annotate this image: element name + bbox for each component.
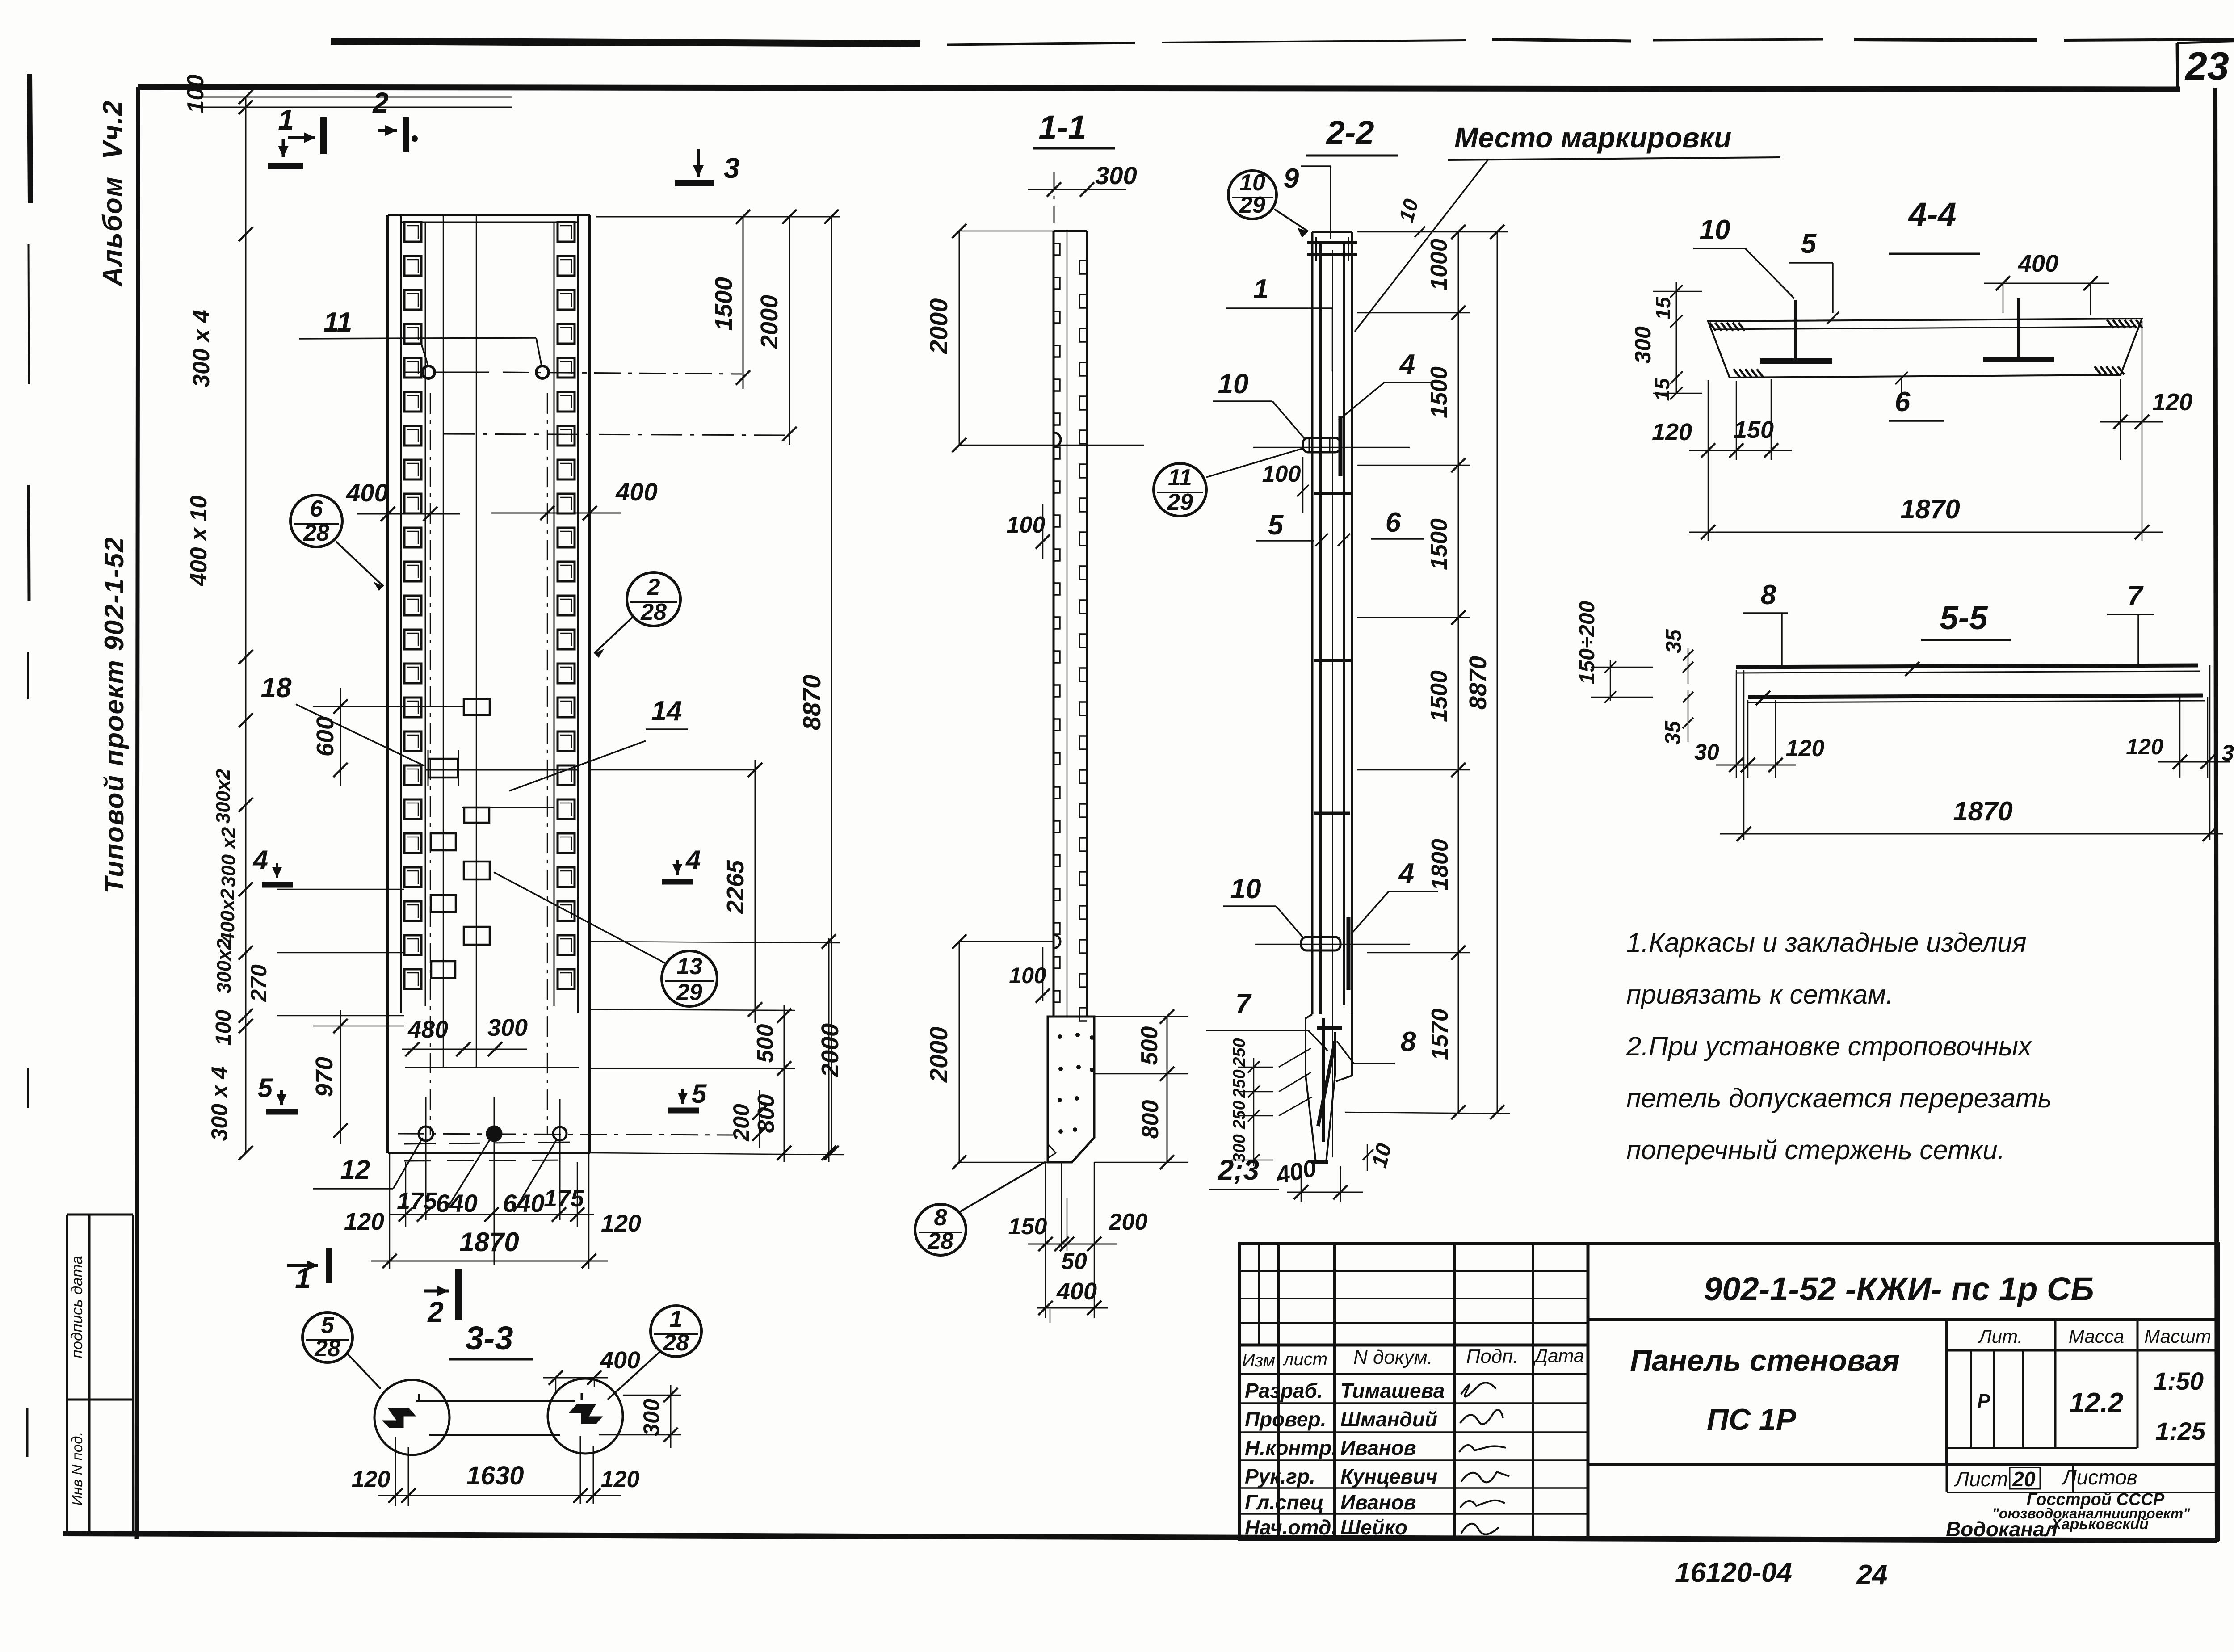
svg-text:1870: 1870 <box>459 1227 519 1257</box>
svg-text:8: 8 <box>934 1205 947 1231</box>
svg-text:1800: 1800 <box>1427 839 1453 891</box>
svg-text:500: 500 <box>752 1024 778 1063</box>
svg-text:300 x 4: 300 x 4 <box>189 310 214 387</box>
svg-text:11: 11 <box>1168 465 1192 491</box>
svg-text:600: 600 <box>312 716 339 757</box>
panel bottom inner dashed lines <box>404 1142 574 1144</box>
svg-text:30: 30 <box>2221 740 2234 765</box>
svg-text:Разраб.: Разраб. <box>1245 1379 1323 1402</box>
header row + signature rows <box>1239 1373 1588 1375</box>
svg-text:2: 2 <box>427 1296 444 1328</box>
ladder dims 300 250 250 250 <box>1279 1048 1311 1067</box>
svg-text:2: 2 <box>647 574 660 600</box>
4-4 right dim 120 <box>2120 379 2121 460</box>
svg-text:N докум.: N докум. <box>1353 1346 1433 1368</box>
svg-text:лист: лист <box>1283 1349 1327 1369</box>
svg-text:300x2: 300x2 <box>212 769 234 824</box>
svg-text:12.2: 12.2 <box>2070 1387 2124 1418</box>
svg-text:Тимашева: Тимашева <box>1340 1379 1445 1402</box>
svg-text:250: 250 <box>1230 1069 1249 1098</box>
svg-text:поперечный стержень сетки.: поперечный стержень сетки. <box>1626 1135 2005 1165</box>
svg-text:300: 300 <box>487 1014 528 1041</box>
4-4 bottom left dims 120 150 <box>1708 380 1709 541</box>
svg-text:50: 50 <box>1061 1248 1087 1274</box>
list row <box>1946 1464 1948 1492</box>
svg-text:Альбом Vч.2: Альбом Vч.2 <box>97 100 127 287</box>
section mark 3 top <box>697 149 700 177</box>
svg-text:2: 2 <box>372 87 389 119</box>
svg-text:400: 400 <box>615 478 657 506</box>
svg-text:400: 400 <box>600 1347 640 1374</box>
svg-text:Н.контр.: Н.контр. <box>1245 1436 1337 1459</box>
svg-text:2000: 2000 <box>924 1027 953 1083</box>
svg-text:1500: 1500 <box>1426 670 1452 722</box>
circle 1/28 <box>651 1306 701 1357</box>
svg-text:500: 500 <box>1137 1026 1163 1065</box>
svg-text:30: 30 <box>1694 740 1719 765</box>
svg-text:Рук.гр.: Рук.гр. <box>1245 1465 1315 1488</box>
svg-text:250: 250 <box>1230 1038 1249 1067</box>
1-1 dim 100 bottom <box>1042 947 1044 1001</box>
svg-text:300 x 4: 300 x 4 <box>207 1067 232 1141</box>
scan top edge line <box>331 41 920 44</box>
svg-text:20: 20 <box>2012 1467 2036 1491</box>
svg-text:5: 5 <box>1268 510 1284 541</box>
svg-text:5: 5 <box>692 1079 707 1109</box>
dims 175 640 640 175 <box>405 1162 407 1227</box>
dim 1870 (5-5) <box>1743 670 1745 840</box>
svg-text:подпись дата: подпись дата <box>68 1256 86 1358</box>
right mid chain 2265 <box>755 760 756 1023</box>
lit massa masshtab <box>1945 1320 1948 1464</box>
1-1 chain 2000 top <box>959 231 960 445</box>
2-2 mid anchor (10) <box>1303 438 1340 452</box>
svg-text:1.Каркасы и закладные издел: 1.Каркасы и закладные изделия <box>1626 928 2027 958</box>
svg-text:11: 11 <box>323 307 352 338</box>
1-1 notches <box>1054 244 1060 255</box>
svg-text:10: 10 <box>1230 874 1261 904</box>
left squares column <box>404 222 421 989</box>
svg-text:120: 120 <box>601 1467 640 1492</box>
svg-text:400: 400 <box>2018 250 2058 277</box>
circle 5/28 <box>302 1312 353 1362</box>
3-3 panel edges <box>416 1400 575 1402</box>
1-1 dim 300 <box>1028 189 1126 190</box>
svg-text:120: 120 <box>2152 389 2192 416</box>
svg-text:100: 100 <box>1009 963 1046 988</box>
3-3 right Z bar <box>570 1404 601 1423</box>
svg-text:Лит.: Лит. <box>1978 1326 2023 1347</box>
1-1 bottom block <box>1048 1017 1094 1162</box>
svg-text:Дата: Дата <box>1533 1345 1584 1366</box>
svg-text:1870: 1870 <box>1900 494 1960 524</box>
svg-text:1-1: 1-1 <box>1039 109 1087 146</box>
svg-text:Гл.спец: Гл.спец <box>1245 1491 1324 1514</box>
4-4 slab outline <box>1708 319 2142 378</box>
svg-text:24: 24 <box>1856 1560 1888 1590</box>
svg-text:1: 1 <box>670 1306 683 1332</box>
right top chains 1500/2000/8870 <box>596 216 840 218</box>
svg-text:Шмандий: Шмандий <box>1340 1408 1437 1431</box>
svg-text:35: 35 <box>1661 720 1685 745</box>
svg-text:14: 14 <box>651 696 682 727</box>
svg-text:Масса: Масса <box>2069 1326 2124 1347</box>
svg-text:1: 1 <box>295 1262 311 1294</box>
svg-text:270: 270 <box>246 964 271 1002</box>
svg-text:4-4: 4-4 <box>1908 196 1957 233</box>
left dim chain <box>245 97 247 1153</box>
svg-text:3-3: 3-3 <box>466 1320 513 1357</box>
svg-text:Лист: Лист <box>1954 1467 2008 1491</box>
lifting hooks top <box>422 366 435 378</box>
2-2 top anchor (9) <box>1307 241 1357 244</box>
svg-text:Типовой проект 902-1-52: Типовой проект 902-1-52 <box>99 537 129 894</box>
bottom anchor circles <box>419 1127 433 1141</box>
svg-text:100: 100 <box>1262 461 1301 487</box>
svg-text:7: 7 <box>1235 989 1252 1020</box>
svg-text:100: 100 <box>1007 512 1046 538</box>
2-2 lower anchor (10) <box>1301 937 1340 950</box>
svg-text:800: 800 <box>1138 1100 1163 1139</box>
3-3 bottom verticals <box>395 1437 396 1506</box>
svg-text:16120-04: 16120-04 <box>1675 1557 1792 1588</box>
svg-text:1500: 1500 <box>1426 518 1452 570</box>
svg-text:400: 400 <box>1056 1278 1097 1305</box>
3-3 dim 300 <box>623 1395 681 1396</box>
svg-text:4: 4 <box>1398 858 1414 889</box>
svg-text:29: 29 <box>1167 489 1193 515</box>
svg-text:Кунцевич: Кунцевич <box>1340 1465 1437 1488</box>
title block outer <box>1239 1244 2218 1539</box>
svg-text:23: 23 <box>2184 44 2229 88</box>
page number box 23 <box>2177 43 2178 88</box>
1-1 bottom dims <box>1045 1162 1046 1318</box>
svg-text:Панель стеновая: Панель стеновая <box>1630 1344 1900 1378</box>
svg-text:120: 120 <box>2126 734 2163 759</box>
right bottom chains 500/800/200/2000 <box>784 1005 785 1162</box>
svg-text:петель допускается перерезат: петель допускается перерезать <box>1626 1083 2052 1113</box>
svg-text:640: 640 <box>436 1189 477 1217</box>
3-3 left loop circle <box>374 1380 449 1455</box>
2-2 right dim chains <box>1357 231 1508 233</box>
svg-text:9: 9 <box>1284 163 1299 194</box>
svg-text:2-2: 2-2 <box>1326 114 1374 151</box>
svg-text:480: 480 <box>407 1016 448 1043</box>
svg-text:902-1-52 -КЖИ- пс 1р СБ: 902-1-52 -КЖИ- пс 1р СБ <box>1704 1270 2094 1307</box>
circle 10/29 <box>1228 171 1277 219</box>
svg-text:970: 970 <box>311 1057 338 1097</box>
svg-text:1570: 1570 <box>1427 1009 1453 1060</box>
svg-text:120: 120 <box>1652 419 1692 446</box>
3-3 right loop circle <box>548 1379 623 1454</box>
svg-text:300: 300 <box>639 1399 664 1436</box>
svg-text:400: 400 <box>346 479 388 507</box>
svg-text:ПС 1Р: ПС 1Р <box>1707 1403 1797 1437</box>
svg-text:2265: 2265 <box>722 860 749 914</box>
svg-text:Масшт: Масшт <box>2144 1326 2211 1347</box>
svg-text:18: 18 <box>261 673 292 703</box>
svg-text:150: 150 <box>1734 416 1774 443</box>
svg-text:200: 200 <box>1109 1209 1148 1235</box>
svg-text:Шейко: Шейко <box>1340 1516 1407 1539</box>
svg-text:150÷200: 150÷200 <box>1575 601 1599 684</box>
svg-text:8870: 8870 <box>798 675 826 731</box>
svg-text:7: 7 <box>2127 581 2144 612</box>
2-2 cage ties <box>1314 492 1351 495</box>
svg-text:300: 300 <box>1095 161 1137 189</box>
drawing frame <box>138 87 2180 89</box>
dims 480 300 <box>402 1049 527 1050</box>
svg-text:200: 200 <box>729 1104 754 1142</box>
interior anchors staggered <box>464 699 490 715</box>
3-3 left Z bar <box>383 1408 415 1427</box>
section marks 5 (lower) <box>280 1090 283 1105</box>
svg-text:Инв N под.: Инв N под. <box>69 1432 85 1505</box>
scan left edge dashes <box>29 74 30 203</box>
svg-text:15: 15 <box>1651 296 1675 320</box>
svg-text:5: 5 <box>1801 228 1817 259</box>
2-2 corbel bottom <box>1306 1014 1335 1162</box>
svg-text:28: 28 <box>314 1336 340 1362</box>
svg-text:2.При установке строповочных: 2.При установке строповочных <box>1626 1031 2032 1061</box>
svg-text:400x2: 400x2 <box>217 888 239 944</box>
1-1 chain 2000 bottom <box>959 942 960 1162</box>
svg-text:13: 13 <box>676 954 702 979</box>
svg-text:1500: 1500 <box>1426 366 1452 418</box>
circle 2/28 <box>627 572 680 626</box>
svg-text:100: 100 <box>212 1010 235 1046</box>
dim 1870 (4-4) <box>1689 532 2163 533</box>
4-4 right T anchor <box>2017 298 2020 358</box>
svg-text:4: 4 <box>685 845 701 875</box>
svg-text:15: 15 <box>1650 378 1674 401</box>
svg-text:Иванов: Иванов <box>1340 1436 1416 1459</box>
svg-text:1630: 1630 <box>466 1461 524 1490</box>
svg-text:4: 4 <box>253 845 268 875</box>
svg-text:1500: 1500 <box>710 277 737 331</box>
1-1 dim 100 <box>1042 504 1044 559</box>
svg-text:28: 28 <box>927 1228 953 1254</box>
2-2 strip <box>1311 232 1314 1014</box>
svg-text:2000: 2000 <box>756 295 783 349</box>
svg-text:120: 120 <box>352 1467 391 1492</box>
svg-text:Провер.: Провер. <box>1245 1408 1326 1431</box>
svg-text:10: 10 <box>1700 214 1730 245</box>
svg-text:29: 29 <box>676 979 702 1005</box>
svg-text:6: 6 <box>1386 507 1401 538</box>
svg-text:привязать к сеткам.: привязать к сеткам. <box>1626 979 1894 1009</box>
svg-text:Подп.: Подп. <box>1466 1345 1518 1367</box>
svg-text:8: 8 <box>1761 580 1776 610</box>
1-1 strip <box>1053 231 1055 1017</box>
5-5 plates <box>1736 665 2198 667</box>
svg-text:35: 35 <box>1662 629 1686 653</box>
4-4 left dims 15/300/15 <box>1676 282 1677 393</box>
svg-text:5-5: 5-5 <box>1940 599 1989 636</box>
svg-text:400 x 10: 400 x 10 <box>186 496 212 586</box>
svg-text:8870: 8870 <box>1465 656 1491 710</box>
svg-text:4: 4 <box>1399 349 1415 380</box>
circle 11/29 left <box>1154 463 1206 516</box>
svg-text:12: 12 <box>340 1155 370 1185</box>
svg-text:10: 10 <box>1218 369 1249 399</box>
4-4 hatch ends <box>1709 323 1716 331</box>
svg-text:Изм: Изм <box>1242 1351 1275 1370</box>
svg-text:8: 8 <box>1401 1026 1416 1057</box>
svg-text:5: 5 <box>258 1073 273 1103</box>
1-1 top hook loop <box>1054 433 1061 447</box>
svg-text:120: 120 <box>1786 736 1825 761</box>
svg-text:3: 3 <box>724 152 740 184</box>
svg-text:640: 640 <box>503 1189 544 1217</box>
interior rib lines <box>443 215 444 1068</box>
svg-text:2000: 2000 <box>817 1023 844 1077</box>
panel plan outline <box>388 214 590 216</box>
1-1 chains 500/800 <box>1167 1017 1168 1162</box>
svg-text:5: 5 <box>321 1312 335 1338</box>
1-1 lower hook loop <box>1054 935 1060 948</box>
svg-text:1: 1 <box>1253 274 1268 305</box>
circle 13/29 <box>662 951 717 1006</box>
signature table verticals <box>1277 1244 1280 1539</box>
svg-text:Р: Р <box>1977 1390 1990 1412</box>
svg-text:Место маркировки: Место маркировки <box>1454 122 1731 154</box>
svg-text:175: 175 <box>397 1188 437 1215</box>
corbel rebar (8) <box>1317 1018 1342 1142</box>
circle 8/28 <box>915 1204 966 1255</box>
svg-text:Нач.отд.: Нач.отд. <box>1245 1516 1337 1539</box>
bottom-left small table <box>67 1214 133 1216</box>
section mark 1 bottom <box>287 1264 318 1267</box>
revision rows <box>1239 1270 1588 1272</box>
section marks 4 (mid) <box>276 863 278 878</box>
right squares column <box>558 222 575 989</box>
svg-text:1: 1 <box>278 104 294 136</box>
svg-text:28: 28 <box>640 599 667 625</box>
svg-text:300: 300 <box>1630 326 1655 364</box>
signatures squiggles <box>1461 1383 1496 1396</box>
svg-text:120: 120 <box>344 1208 384 1235</box>
svg-text:2;3: 2;3 <box>1218 1154 1260 1186</box>
svg-text:100: 100 <box>183 75 209 113</box>
svg-text:28: 28 <box>663 1330 689 1356</box>
5-5 bottom dims <box>1736 670 1737 778</box>
svg-text:1:25: 1:25 <box>2155 1417 2206 1445</box>
svg-text:1000: 1000 <box>1426 239 1452 290</box>
svg-text:28: 28 <box>303 520 329 546</box>
svg-text:6: 6 <box>1895 387 1911 417</box>
svg-text:300 x2: 300 x2 <box>218 827 239 887</box>
svg-text:Водоканал: Водоканал <box>1946 1517 2058 1541</box>
circle 6/28 <box>290 495 342 547</box>
section mark 2 bottom <box>424 1290 449 1293</box>
svg-text:250: 250 <box>1230 1101 1249 1129</box>
svg-text:120: 120 <box>601 1210 641 1237</box>
4-4 left T anchor <box>1794 300 1797 360</box>
svg-text:Харьковский: Харьковский <box>2050 1516 2149 1533</box>
svg-text:150: 150 <box>1008 1214 1047 1240</box>
3-3 bottom dims <box>378 1495 621 1496</box>
inner left chain 600/970 <box>340 688 341 786</box>
svg-text:Иванов: Иванов <box>1340 1491 1416 1514</box>
axis dash-dot lines <box>503 372 742 374</box>
svg-text:1:50: 1:50 <box>2154 1367 2204 1395</box>
svg-text:6: 6 <box>310 496 323 522</box>
svg-text:29: 29 <box>1239 192 1265 218</box>
svg-text:300x2: 300x2 <box>213 938 235 993</box>
svg-text:175: 175 <box>544 1185 584 1212</box>
svg-text:1870: 1870 <box>1953 796 2012 826</box>
svg-text:2000: 2000 <box>924 298 953 355</box>
dim 1870 <box>389 1153 391 1269</box>
